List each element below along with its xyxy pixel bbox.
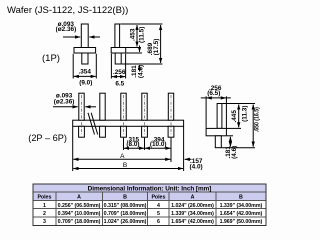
svg-text:A: A <box>77 195 81 201</box>
leg L4 <box>142 126 148 137</box>
svg-text:4: 4 <box>157 203 160 209</box>
svg-text:(17.5): (17.5) <box>153 39 160 56</box>
extension line base top (2P side) <box>227 127 241 129</box>
dimension .394 line <box>145 147 171 149</box>
svg-text:.256: .256 <box>113 69 126 76</box>
2P wafer bar <box>73 120 184 126</box>
centerline pin P4 <box>144 95 146 136</box>
dimension .181 line (2P side) <box>229 137 231 147</box>
table outer background <box>33 184 266 226</box>
svg-text:1.654" (42.00mm): 1.654" (42.00mm) <box>171 219 214 225</box>
extension line leg bottom (2P side) <box>222 147 255 149</box>
svg-text:Wafer (JS-1122, JS-1122(B)): Wafer (JS-1122, JS-1122(B)) <box>7 5 128 16</box>
pin P2 <box>100 93 105 120</box>
extension line pin top (1P side) <box>120 23 162 25</box>
svg-text:0.315" (08.00mm): 0.315" (08.00mm) <box>104 203 147 209</box>
dimension .256 line (1P side) <box>112 76 125 78</box>
dimension A line <box>73 158 170 160</box>
svg-text:1.654" (42.00mm): 1.654" (42.00mm) <box>220 211 263 217</box>
leg L3 <box>121 126 127 137</box>
svg-text:B: B <box>123 162 127 169</box>
svg-text:2: 2 <box>43 211 46 217</box>
pitch extension line P5 <box>170 138 172 150</box>
svg-text:6: 6 <box>157 219 160 225</box>
dimension .453 line <box>136 25 138 47</box>
svg-text:Dimensional Information: Unit:: Dimensional Information: Unit: Inch [mm] <box>88 186 212 193</box>
dimension .181 outside arrows (1P side) <box>139 46 141 53</box>
svg-text:(8.0): (8.0) <box>126 141 139 148</box>
dimension B line <box>73 168 183 170</box>
svg-text:3: 3 <box>43 219 46 225</box>
svg-text:Poles: Poles <box>151 195 165 201</box>
2P side view leg <box>215 136 221 148</box>
svg-text:1: 1 <box>43 203 46 209</box>
extension line leg bottom (1P side) <box>122 63 163 65</box>
dimension .354 line <box>74 75 96 77</box>
1P side view leg <box>115 53 121 64</box>
1P side view base <box>111 48 126 54</box>
pin P3 <box>121 93 126 120</box>
extension line base top (1P side) <box>126 47 140 49</box>
svg-text:5: 5 <box>157 211 160 217</box>
table column headers <box>37 195 243 201</box>
dimension .354 extension lines <box>72 54 74 79</box>
svg-text:.650 (16.5): .650 (16.5) <box>254 107 261 132</box>
svg-text:B: B <box>123 195 127 201</box>
svg-text:0.394" (10.00mm): 0.394" (10.00mm) <box>58 211 101 217</box>
extension line bar left <box>72 127 74 172</box>
dimension .256 extension lines (1P side) <box>110 54 112 79</box>
dimension .650 line <box>252 105 254 147</box>
svg-text:1.969" (50.00mm): 1.969" (50.00mm) <box>220 219 263 225</box>
svg-text:(1P): (1P) <box>42 53 60 64</box>
pitch extension line P4 <box>144 138 146 150</box>
svg-text:.354: .354 <box>78 69 91 76</box>
extension line base bottom (2P side) <box>227 135 233 137</box>
dimension .445 line <box>238 105 240 128</box>
svg-text:A: A <box>191 195 195 201</box>
table outer border <box>33 184 266 226</box>
svg-text:(4.0): (4.0) <box>190 163 203 170</box>
svg-text:(10.0): (10.0) <box>150 141 167 148</box>
1P side view pin <box>115 24 120 48</box>
svg-text:B: B <box>239 195 243 201</box>
table <box>33 184 266 226</box>
arrow left to pin P1 <box>53 106 78 108</box>
svg-text:A: A <box>120 153 125 160</box>
pitch extension line P3 <box>123 138 125 150</box>
svg-text:1.339" (34.00mm): 1.339" (34.00mm) <box>220 203 263 209</box>
arrow right to pin (1P dia) <box>89 36 100 38</box>
arrow right to pin P1 <box>85 106 96 108</box>
svg-text:6.5: 6.5 <box>115 80 124 87</box>
dimension .256 extension lines (2P side) <box>205 96 207 128</box>
pin P1 <box>79 93 84 120</box>
svg-text:(ø2.36): (ø2.36) <box>54 99 75 106</box>
table data rows <box>43 203 263 225</box>
1P front view base <box>74 48 96 54</box>
leg L5 <box>168 126 174 137</box>
centerline pin P3 <box>123 95 125 136</box>
svg-text:1.339" (34.00mm): 1.339" (34.00mm) <box>171 211 214 217</box>
svg-text:0.256" (06.50mm): 0.256" (06.50mm) <box>58 203 101 209</box>
centerline pin P1 <box>81 95 83 136</box>
pin P5 <box>168 93 173 120</box>
1P front view pin <box>81 24 88 48</box>
dimension .256 line (2P side) <box>207 97 226 99</box>
svg-text:(11.3): (11.3) <box>241 106 248 122</box>
table grid <box>33 192 266 225</box>
svg-text:(2P – 6P): (2P – 6P) <box>28 133 67 143</box>
table header band <box>33 184 266 201</box>
svg-text:0.709" (18.00mm): 0.709" (18.00mm) <box>58 219 101 225</box>
arrow left to pin (1P dia) <box>63 36 80 38</box>
svg-text:(4.6): (4.6) <box>137 65 144 78</box>
svg-text:Poles: Poles <box>37 195 51 201</box>
leg L2 <box>100 126 106 137</box>
svg-text:0.709" (18.00mm): 0.709" (18.00mm) <box>104 211 147 217</box>
break symbol <box>88 113 95 135</box>
svg-text:.445: .445 <box>231 110 238 123</box>
dimension .315 line <box>124 147 144 149</box>
svg-text:(4.6): (4.6) <box>231 146 238 159</box>
pin P4 <box>142 93 147 120</box>
svg-text:(ø2.36): (ø2.36) <box>56 26 77 33</box>
svg-text:1.024" (26.00mm): 1.024" (26.00mm) <box>171 203 214 209</box>
svg-text:1.024" (26.00mm): 1.024" (26.00mm) <box>104 219 147 225</box>
2P side view base <box>206 128 226 135</box>
dimension .157 arrow <box>185 158 192 160</box>
extension line base bottom (1P side) <box>126 52 142 54</box>
leg L1 <box>79 126 85 137</box>
svg-text:(9.0): (9.0) <box>79 80 92 87</box>
1P front view leg <box>82 53 88 64</box>
svg-text:.453: .453 <box>129 28 136 41</box>
centerline pin P5 <box>170 95 172 136</box>
svg-text:(11.5): (11.5) <box>139 27 146 43</box>
2P side view pin <box>217 104 222 129</box>
svg-text:(6.5): (6.5) <box>207 90 220 97</box>
dimension .689 line <box>160 25 162 63</box>
extension line pin top (2P side) <box>222 103 255 105</box>
extension line bar right for B <box>183 127 185 172</box>
extension line P5 for A <box>170 150 172 162</box>
